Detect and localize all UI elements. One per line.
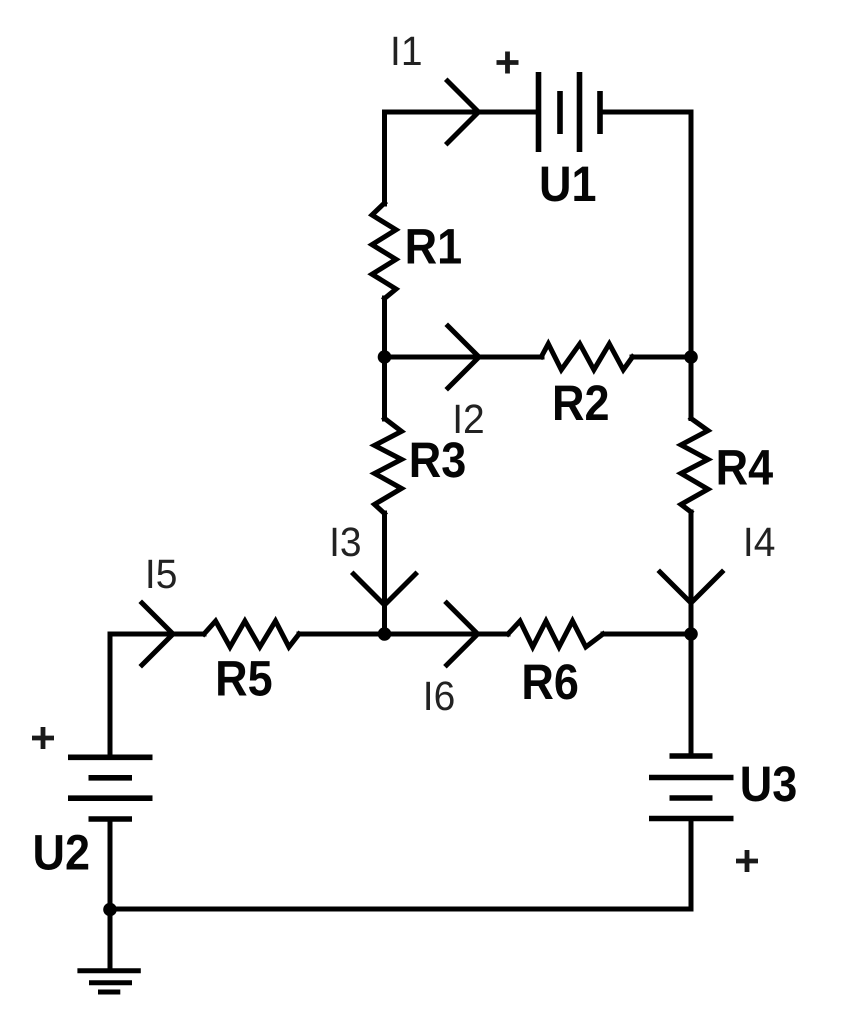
label R3: [409, 432, 467, 488]
battery U3 plates: [649, 756, 734, 819]
label U3: [740, 756, 798, 812]
svg-text:I4: I4: [743, 519, 775, 565]
svg-text:U1: U1: [539, 156, 597, 212]
wire R5 right to node D: [299, 632, 385, 637]
svg-text:I3: I3: [329, 519, 361, 565]
resistor R3 zigzag: [375, 418, 402, 513]
svg-text:I6: I6: [423, 673, 455, 719]
wire top-left horizontal (node A to U1 plus plate): [385, 112, 539, 204]
label R4: [716, 440, 774, 496]
wire U2 bottom to node F to ground: [108, 819, 113, 970]
arrow I2: [448, 326, 479, 388]
svg-text:U3: U3: [740, 756, 798, 812]
label R1: [405, 218, 463, 274]
label I6: [423, 673, 455, 719]
ground symbol: [77, 971, 140, 992]
wire R3 bottom to node D: [382, 513, 387, 634]
wire U1 right plate to top-right corner down to R4: [601, 112, 692, 419]
label R2: [552, 375, 610, 431]
battery U2 plates: [68, 757, 153, 819]
svg-text:R5: R5: [215, 651, 273, 707]
node D junction dot: [378, 627, 392, 641]
resistor R1 zigzag: [372, 203, 396, 299]
node F junction dot: [103, 903, 117, 917]
svg-text:R6: R6: [521, 654, 579, 710]
label I5: [145, 551, 177, 597]
battery U1 plates: [539, 72, 601, 152]
plus sign U3: [736, 850, 758, 872]
wire R2 right to node C: [632, 355, 691, 360]
resistor R6 zigzag: [508, 621, 603, 647]
label I4: [743, 519, 775, 565]
svg-text:R1: R1: [405, 218, 463, 274]
label R5: [215, 651, 273, 707]
label I1: [390, 28, 422, 74]
svg-text:R2: R2: [552, 375, 610, 431]
node B junction dot: [378, 350, 392, 364]
plus sign U2: [32, 727, 54, 749]
wire node E down to U3: [689, 634, 694, 756]
wire U3 bottom to bottom-right corner and bottom run to node F: [110, 819, 691, 910]
arrow I1: [448, 81, 479, 143]
svg-text:I1: I1: [390, 28, 422, 74]
svg-text:I5: I5: [145, 551, 177, 597]
label U1: [539, 156, 597, 212]
node C junction dot: [684, 350, 698, 364]
node E junction dot: [684, 627, 698, 641]
label U2: [33, 825, 91, 881]
label I2: [452, 396, 484, 442]
resistor R4 zigzag: [681, 418, 708, 512]
wire U2 top corner to R5 left: [110, 634, 204, 757]
label I3: [329, 519, 361, 565]
wire R1 bottom to R3 top through node B: [382, 298, 387, 419]
label R6: [521, 654, 579, 710]
resistor R5 zigzag: [204, 621, 299, 647]
svg-text:R3: R3: [409, 432, 467, 488]
svg-text:U2: U2: [33, 825, 91, 881]
wire node B to R2 left: [385, 355, 543, 360]
arrow I5: [142, 603, 173, 665]
arrow I3: [354, 574, 416, 605]
wire node D to R6 left: [385, 632, 509, 637]
wire R6 right to node E: [603, 632, 691, 637]
resistor R2 zigzag: [541, 344, 632, 370]
svg-text:R4: R4: [716, 440, 774, 496]
wire R4 bottom to node E: [689, 512, 694, 634]
arrow I4: [660, 572, 722, 603]
arrow I6: [447, 603, 478, 665]
plus sign U1: [497, 52, 519, 74]
